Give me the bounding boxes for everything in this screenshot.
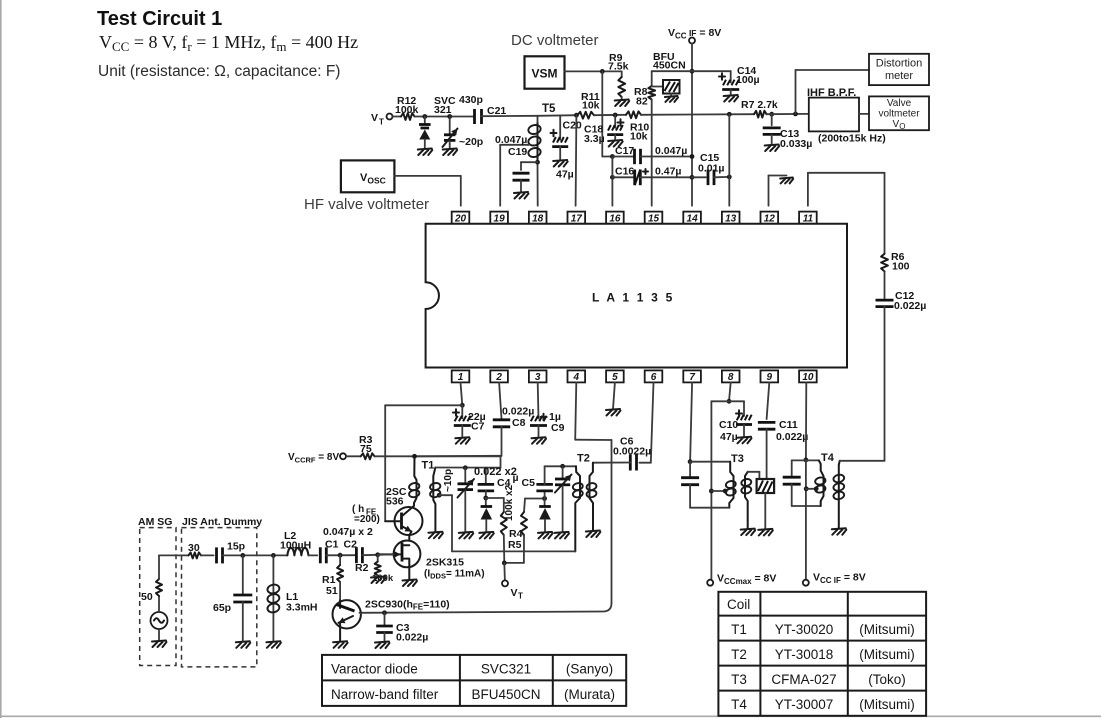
svg-text:T1: T1 <box>422 460 435 472</box>
capacitor C21 430p <box>459 94 506 124</box>
ground under C10 <box>737 437 752 444</box>
varactor diode SVC321 <box>419 95 456 149</box>
wire pin 1 down <box>461 382 463 405</box>
capacitor C3 0.022u <box>376 613 428 644</box>
wire pin 3 down <box>537 382 540 418</box>
svg-text:3.3µ: 3.3µ <box>584 133 605 145</box>
junction C18 node <box>613 113 618 118</box>
ground under pin 5 <box>606 409 621 416</box>
pin 13 box <box>722 212 740 225</box>
wire tank rail B <box>545 465 576 467</box>
svg-text:Valve: Valve <box>887 98 912 109</box>
label IHF BPF <box>807 87 856 99</box>
ground at pin 12 <box>780 178 793 184</box>
junction T3 top node <box>688 459 693 464</box>
wire T3 top rail <box>690 461 730 463</box>
junction T4 tap <box>804 486 819 491</box>
svg-text:13: 13 <box>725 213 737 224</box>
junction pin 1 node <box>460 403 465 408</box>
wire R11 to C18 node <box>594 114 626 116</box>
svg-text:14: 14 <box>687 213 699 224</box>
svg-text:C20: C20 <box>563 120 582 132</box>
ground under SG <box>152 641 167 648</box>
svg-text:0.047µ x 2: 0.047µ x 2 <box>323 526 373 538</box>
wire L2 to C1 <box>308 554 317 556</box>
label 100k x2 vertical <box>504 484 515 521</box>
box distortion meter <box>869 54 929 85</box>
svg-text:C2: C2 <box>344 539 358 551</box>
svg-text:17: 17 <box>571 213 583 224</box>
transistor Q2 2SK315 FET <box>378 541 485 581</box>
svg-text:Varactor diode: Varactor diode <box>331 662 418 677</box>
svg-text:82: 82 <box>636 96 648 108</box>
svg-text:~10p: ~10p <box>443 469 454 492</box>
box Vosc <box>341 160 395 192</box>
ground under varactor <box>418 149 433 156</box>
trimmer capacitor tank1 <box>458 468 475 532</box>
wire T3 secondary top to resonator <box>748 472 760 479</box>
ground under C14 <box>724 95 739 102</box>
junction C5 diode node <box>542 496 547 501</box>
pin 20 box <box>452 212 470 225</box>
pin 18 box <box>529 212 547 225</box>
wire 15p to L1 node <box>223 554 288 556</box>
wire R8 to pin 15 <box>651 100 653 206</box>
pin 1 box <box>452 370 470 383</box>
pin 4 box <box>568 370 586 383</box>
ground under Q2 <box>403 580 418 587</box>
capacitor C19 0.047u <box>495 134 530 192</box>
capacitor C1 <box>320 539 338 564</box>
svg-text:0.022µ: 0.022µ <box>776 431 808 443</box>
svg-text:C19: C19 <box>508 146 527 158</box>
junction pin17 node <box>574 113 579 118</box>
wire pin 8 branch <box>711 401 744 579</box>
svg-text:C7: C7 <box>471 421 485 433</box>
junction C17 right <box>690 154 695 159</box>
svg-text:11: 11 <box>803 213 814 224</box>
wire Vosc to pin 20 <box>394 176 460 206</box>
capacitor C2 <box>344 539 363 564</box>
resistor 50 <box>141 579 162 603</box>
box JIS dashed <box>182 528 257 667</box>
label 200 to 15k Hz <box>818 133 886 145</box>
transformer T3 primary <box>725 462 736 508</box>
wire R12 to C21 <box>415 116 475 118</box>
svg-text:100µ: 100µ <box>736 74 760 86</box>
svg-text:51: 51 <box>326 585 338 597</box>
ground under C3 <box>375 642 390 649</box>
pin 7 box <box>683 370 701 383</box>
wire C5 node jog <box>525 498 545 500</box>
junction 65p node <box>240 553 245 558</box>
pin 8 box <box>722 370 740 383</box>
junction VT node <box>502 561 507 566</box>
pin 16 box <box>606 212 624 225</box>
ground under C9 <box>532 437 547 444</box>
wire C8 to rail <box>415 427 502 457</box>
inductor L2 100uH <box>280 530 311 555</box>
svg-text:0.033µ: 0.033µ <box>780 138 812 150</box>
junction R1 node <box>338 553 343 558</box>
capacitor C8 0.022u <box>493 406 535 430</box>
junction C3 node <box>382 610 387 615</box>
wire T4 secondary top <box>840 460 885 462</box>
junction C15 right <box>727 175 732 180</box>
pin 19 box <box>490 212 508 225</box>
capacitor T3 tank cap <box>681 462 699 508</box>
IC LA1135 body <box>426 224 847 368</box>
capacitor C13 0.033u <box>763 114 813 150</box>
box VSM DC voltmeter <box>525 56 565 88</box>
node VT terminal <box>502 580 523 600</box>
wire pin 6 down <box>651 382 654 462</box>
varactor diode D2 <box>539 499 551 532</box>
wire pin 10 down <box>805 382 807 460</box>
wire pin 5 down <box>613 382 615 409</box>
label VCC IF 8V <box>668 27 721 41</box>
wire pin 12 to ground <box>769 176 787 206</box>
svg-text:V: V <box>371 112 378 124</box>
svg-text:0.022µ: 0.022µ <box>396 632 428 644</box>
svg-text:=200): =200) <box>354 514 380 525</box>
pin 9 box <box>761 370 779 383</box>
wire R4 R5 bottom rail <box>504 562 524 564</box>
box valve voltmeter Vo <box>869 96 929 131</box>
ground under BFU450CN <box>665 96 678 102</box>
svg-text:C10: C10 <box>719 419 738 431</box>
svg-text:75: 75 <box>360 443 372 455</box>
svg-text:0.022µ: 0.022µ <box>894 300 926 312</box>
transformer T4 secondary <box>833 461 845 528</box>
pin 3 box <box>529 370 547 383</box>
label -10p vertical <box>443 469 454 492</box>
pin 17 box <box>568 212 586 225</box>
svg-text:100: 100 <box>892 261 910 273</box>
svg-text:(Murata): (Murata) <box>564 687 615 702</box>
svg-text:0.0022µ: 0.0022µ <box>613 446 651 458</box>
page bottom border <box>0 715 1101 717</box>
junction T1 tap <box>437 493 442 498</box>
wire Q1 emitter to Q2 drain <box>408 535 410 545</box>
ground under D2 <box>538 532 553 539</box>
box IHF BPF <box>809 98 859 132</box>
junction VSM wire node <box>600 69 605 74</box>
junction T1 top node <box>412 454 417 459</box>
ground under C19 <box>514 192 529 199</box>
wire pin 1 to base riser <box>385 405 462 521</box>
wire C12 down to T4 <box>884 307 886 461</box>
junction trimmer node <box>447 114 452 119</box>
svg-text:~20p: ~20p <box>459 136 483 148</box>
subtitle Vcc fr fm line <box>99 32 358 54</box>
wire pin 11 to right rail <box>808 173 885 254</box>
transistor Q1 2SC536 <box>352 486 423 535</box>
ground under C13 <box>765 145 780 152</box>
wire T5 node to R11 <box>538 114 578 117</box>
wire T4 top rail <box>792 459 819 461</box>
ground under trimmer2 <box>555 532 570 539</box>
wire VSM to R9 <box>565 70 622 72</box>
ground under resonator <box>758 529 773 536</box>
svg-text:T4: T4 <box>731 697 747 712</box>
junction T3 tap <box>709 489 728 494</box>
wire R7 to BPF <box>767 113 809 115</box>
wire T5 tap to pin 19 <box>500 145 529 206</box>
table varactor/filter <box>322 655 626 706</box>
ground under trimmer <box>443 149 458 156</box>
capacitor C18 3.3u electrolytic <box>584 115 624 145</box>
svg-text:10k: 10k <box>630 131 648 143</box>
svg-text:0.047µ: 0.047µ <box>655 145 687 157</box>
svg-text:(Toko): (Toko) <box>868 672 906 687</box>
node VCCRF terminal <box>288 452 346 465</box>
node VT input terminal <box>371 112 393 127</box>
wire down to R8 <box>651 71 653 86</box>
pin 11 box <box>799 212 817 225</box>
wire VCC IF down to pin 14 <box>691 44 693 206</box>
resistor R9 7.5k <box>608 52 629 100</box>
label T2 <box>577 453 590 465</box>
label 2SC930 <box>365 599 450 612</box>
label AM SG <box>138 516 172 528</box>
junction T5 bottom <box>535 160 540 165</box>
resistor R4 100k <box>501 512 523 563</box>
svg-text:T3: T3 <box>731 453 744 465</box>
ground under C7 <box>455 437 470 444</box>
svg-text:(Mitsumi): (Mitsumi) <box>859 622 915 637</box>
svg-text:16: 16 <box>609 213 621 224</box>
svg-text:voltmeter: voltmeter <box>878 109 920 120</box>
node VCC IF terminal bottom <box>803 572 866 586</box>
svg-text:T2: T2 <box>577 453 590 465</box>
wire pin 4 down and across <box>360 382 612 612</box>
svg-text:430p: 430p <box>459 94 483 106</box>
wire Q3 emitter line <box>360 612 361 614</box>
svg-text:2SC930(hFE=110): 2SC930(hFE=110) <box>365 599 450 612</box>
label T4 <box>821 452 835 464</box>
resistor 30 <box>188 542 201 558</box>
svg-text:10: 10 <box>802 372 814 383</box>
svg-text:(Mitsumi): (Mitsumi) <box>859 697 915 712</box>
wire to distortion meter <box>796 70 870 114</box>
svg-text:19: 19 <box>494 213 506 224</box>
svg-text:AM SG: AM SG <box>138 516 172 528</box>
capacitor C10 47u electrolytic <box>719 410 752 443</box>
svg-text:C8: C8 <box>512 417 526 429</box>
svg-text:30: 30 <box>188 542 200 554</box>
resistor R1 51 <box>322 555 343 600</box>
ground under T3 secondary <box>741 529 756 536</box>
capacitor C14 100u electrolytic <box>719 65 760 95</box>
capacitor C11 0.022u <box>758 419 808 443</box>
svg-text:C17: C17 <box>615 145 634 157</box>
svg-text:T1: T1 <box>731 622 747 637</box>
resistor R2 100k <box>355 555 394 584</box>
pin 12 box <box>761 212 779 225</box>
svg-text:C16: C16 <box>615 166 634 178</box>
junction trimmer2 node <box>560 464 565 469</box>
wire VSM node down to C17 node <box>602 71 612 156</box>
label T1 <box>422 460 435 472</box>
capacitor C7 22u electrolytic <box>453 405 486 437</box>
trimmer capacitor tank2 <box>555 466 572 532</box>
svg-text:(Sanyo): (Sanyo) <box>566 662 613 677</box>
svg-text:VCC = 8 V, fr = 1 MHz, fm = 40: VCC = 8 V, fr = 1 MHz, fm = 400 Hz <box>99 32 358 54</box>
svg-text:7.5k: 7.5k <box>608 61 629 73</box>
coil T5 <box>528 103 557 162</box>
svg-text:Coil: Coil <box>727 597 750 612</box>
svg-text:12: 12 <box>764 213 776 224</box>
capacitor C6 0.0022u <box>593 436 651 471</box>
svg-text:100µH: 100µH <box>280 540 311 552</box>
label 0.047u x2 <box>323 526 373 538</box>
svg-text:CFMA-027: CFMA-027 <box>771 672 836 687</box>
junction C4 diode node <box>483 496 488 501</box>
wire SG to R50 <box>158 596 160 612</box>
svg-text:T3: T3 <box>731 672 747 687</box>
ground under C18 <box>608 140 623 147</box>
svg-text:T: T <box>379 118 384 127</box>
pin 14 box <box>683 212 701 225</box>
svg-text:0.047µ: 0.047µ <box>495 134 527 146</box>
label JIS Ant Dummy <box>182 516 262 528</box>
wire VT to R12 <box>392 116 401 118</box>
pin 15 box <box>645 212 663 225</box>
table coil list <box>718 592 926 716</box>
transistor Q3 2SC930 <box>333 600 361 641</box>
pin 2 box <box>490 370 508 383</box>
ground under R9 <box>615 100 630 107</box>
svg-text:VSM: VSM <box>531 67 557 81</box>
ground under trimmer1 <box>459 532 474 539</box>
wire T2 primary bottom rail <box>452 550 575 552</box>
svg-text:Narrow-band filter: Narrow-band filter <box>331 687 439 702</box>
ceramic filter BFU450CN <box>652 51 686 96</box>
junction varactor node <box>422 114 427 119</box>
ground under T4 secondary <box>832 528 847 535</box>
capacitor C4 0.022u <box>474 466 535 498</box>
label HF valve voltmeter <box>304 196 429 213</box>
junction R2 node <box>375 552 380 557</box>
wire T5 top stub <box>537 116 539 123</box>
resistor R6 100 <box>881 251 910 273</box>
svg-text:BFU450CN: BFU450CN <box>471 687 540 702</box>
svg-text:T4: T4 <box>821 452 835 464</box>
svg-text:L A 1 1 3 5: L A 1 1 3 5 <box>592 291 674 305</box>
junction VCC IF branch <box>690 69 695 74</box>
wire C4 node to R4 <box>486 498 504 512</box>
resistor R11 10k <box>577 91 599 119</box>
resistor R7 2.7k <box>741 99 778 118</box>
svg-text:450CN: 450CN <box>653 60 686 72</box>
wire pin 7 down <box>690 382 692 461</box>
wire R10 to VCC line <box>641 114 692 116</box>
page left border <box>0 0 2 718</box>
terminal VCC IF <box>689 38 695 44</box>
svg-text:2SK315: 2SK315 <box>426 557 464 569</box>
trimmer capacitor ~20p <box>443 117 484 149</box>
svg-text:YT-30018: YT-30018 <box>775 647 834 662</box>
subtitle unit line <box>98 63 340 80</box>
wire pin 10 to VCC IF terminal <box>805 460 807 580</box>
inductor L1 3.3mH <box>267 555 318 641</box>
capacitor C15 0.01u <box>698 152 729 185</box>
resistor R10 10k <box>626 111 649 142</box>
svg-text:YT-30007: YT-30007 <box>775 697 834 712</box>
wire C11 to resonator <box>766 429 768 479</box>
capacitor C5 0.022u <box>536 466 553 498</box>
svg-text:0.022µ: 0.022µ <box>502 406 534 418</box>
wire 30 to 15p <box>201 554 214 556</box>
transformer T4 primary <box>814 460 826 506</box>
ground under C20 <box>553 160 568 167</box>
capacitor C20 47u electrolytic <box>551 116 582 181</box>
svg-text:HF valve voltmeter: HF valve voltmeter <box>304 196 429 213</box>
svg-text:T: T <box>518 592 523 601</box>
svg-text:V: V <box>511 587 518 599</box>
svg-text:3.3mH: 3.3mH <box>286 602 318 614</box>
wire pin 16 riser <box>611 157 613 206</box>
svg-text:T2: T2 <box>731 647 747 662</box>
ground under L1 <box>266 641 281 648</box>
svg-text:R7 2.7k: R7 2.7k <box>741 99 778 111</box>
ceramic resonator CFMA <box>757 479 775 529</box>
svg-text:JIS Ant. Dummy: JIS Ant. Dummy <box>182 516 262 528</box>
wire tank rail A <box>435 467 500 469</box>
wire VCC branch horizontal <box>652 70 731 72</box>
svg-text:0.47µ: 0.47µ <box>655 166 682 178</box>
node VCCmax terminal <box>707 573 776 587</box>
wire T5 bottom to C19 <box>521 162 538 170</box>
wire pin 17 riser <box>575 115 578 206</box>
resistor R8 82 <box>634 86 655 108</box>
svg-text:DC voltmeter: DC voltmeter <box>511 32 599 49</box>
svg-text:47µ: 47µ <box>720 431 738 443</box>
junction C16 left <box>610 175 615 180</box>
ground under Q3 <box>333 641 348 648</box>
junction distortion node <box>793 112 798 117</box>
AC source SG <box>151 612 168 629</box>
pin 10 box <box>799 370 817 383</box>
wire pin 2 down <box>499 382 501 418</box>
transformer T1 primary <box>408 456 420 506</box>
junction C17 left <box>610 154 615 159</box>
svg-text:C5: C5 <box>522 477 536 489</box>
varactor diode D1 <box>481 498 493 532</box>
svg-text:T5: T5 <box>542 103 556 115</box>
capacitor C12 0.022u <box>876 290 927 312</box>
ground under T2 secondary <box>586 531 601 538</box>
svg-text:Distortion: Distortion <box>876 58 922 70</box>
svg-text:15: 15 <box>648 213 660 224</box>
ground under D1 <box>479 532 494 539</box>
wire gate wire <box>378 553 394 555</box>
transformer T3 secondary <box>741 472 752 529</box>
capacitor T4 tank cap <box>783 460 821 506</box>
svg-text:µ: µ <box>513 472 519 484</box>
wire C16 node to C15 <box>692 176 706 178</box>
svg-text:100k: 100k <box>395 104 419 116</box>
wire T1 tap down <box>439 495 452 551</box>
svg-text:10k: 10k <box>582 100 600 112</box>
capacitor 15p <box>217 541 246 564</box>
capacitor 65p <box>213 555 252 641</box>
transformer T1 secondary <box>429 468 441 532</box>
svg-text:15p: 15p <box>227 541 245 553</box>
box AM SG dashed <box>140 528 176 666</box>
capacitor C9 1u electrolytic <box>530 411 565 437</box>
